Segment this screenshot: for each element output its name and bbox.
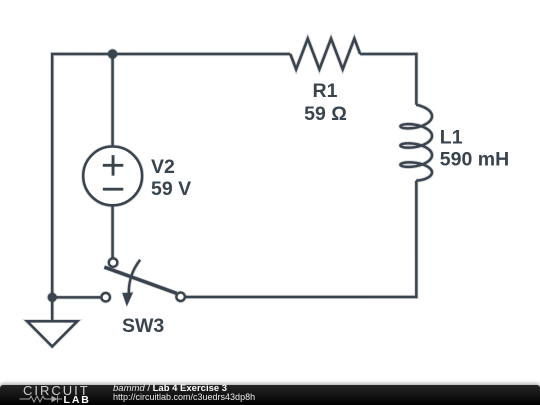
svg-text:590 mH: 590 mH [440,148,509,170]
svg-text:V2: V2 [151,156,175,178]
svg-text:59 Ω: 59 Ω [304,103,347,125]
svg-text:SW3: SW3 [122,315,164,337]
svg-text:R1: R1 [313,80,338,102]
svg-text:L1: L1 [440,126,463,148]
svg-text:59 V: 59 V [151,178,191,200]
